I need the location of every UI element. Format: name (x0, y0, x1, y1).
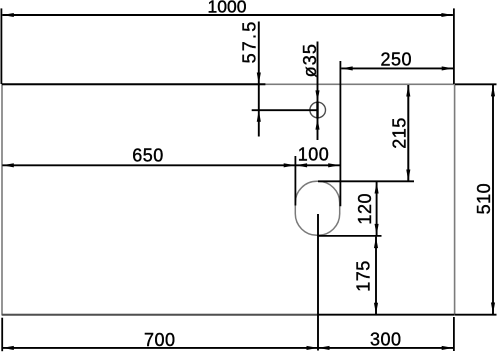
svg-text:250: 250 (381, 49, 413, 69)
svg-text:510: 510 (474, 183, 494, 215)
svg-text:175: 175 (354, 260, 374, 292)
svg-text:120: 120 (355, 193, 375, 225)
svg-text:ø35: ø35 (300, 43, 320, 77)
svg-text:700: 700 (144, 330, 176, 350)
svg-text:650: 650 (132, 146, 164, 166)
svg-text:300: 300 (370, 330, 402, 350)
svg-text:57.5: 57.5 (240, 20, 260, 64)
svg-text:1000: 1000 (208, 0, 247, 16)
svg-text:100: 100 (298, 145, 330, 165)
svg-text:215: 215 (390, 117, 410, 149)
